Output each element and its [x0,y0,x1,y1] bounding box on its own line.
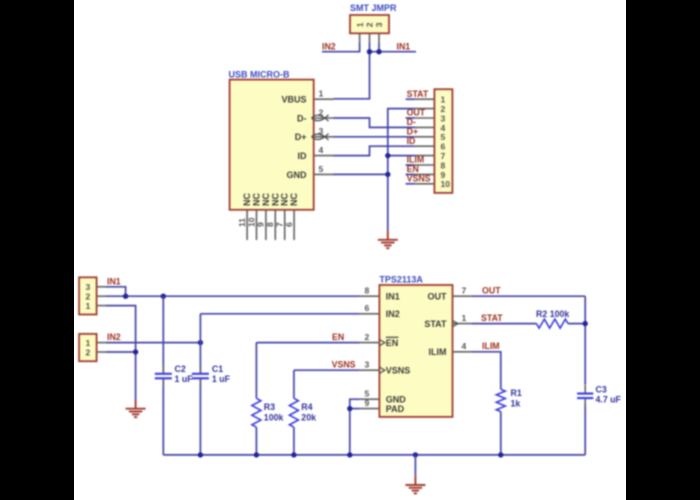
svg-text:TPS2113A: TPS2113A [379,274,423,284]
svg-text:2: 2 [365,22,375,27]
svg-text:R2 100k: R2 100k [536,309,569,319]
svg-text:7: 7 [462,286,467,296]
svg-text:10: 10 [441,179,451,189]
svg-text:1 uF: 1 uF [175,374,194,384]
svg-text:D+: D+ [295,132,307,142]
svg-text:IN2: IN2 [107,332,121,342]
svg-text:6: 6 [284,222,294,227]
svg-text:3: 3 [365,360,370,370]
svg-text:IN1: IN1 [107,276,121,286]
svg-text:EN: EN [386,338,399,348]
svg-text:1: 1 [319,89,324,99]
svg-text:VSNS: VSNS [386,366,411,376]
svg-text:1: 1 [355,22,365,27]
svg-text:NC: NC [289,193,299,206]
svg-text:C1: C1 [212,364,223,374]
svg-text:GND: GND [287,170,308,180]
svg-text:C2: C2 [175,364,186,374]
svg-text:IN2: IN2 [386,309,400,319]
svg-text:100k: 100k [264,412,284,422]
svg-text:20k: 20k [301,412,316,422]
svg-text:1k: 1k [511,399,521,409]
svg-text:IN1: IN1 [397,41,411,51]
svg-text:8: 8 [365,286,370,296]
svg-text:C3: C3 [596,384,607,394]
svg-text:STAT: STAT [424,319,447,329]
svg-text:ID: ID [298,151,308,161]
svg-text:R3: R3 [264,402,275,412]
svg-text:2: 2 [365,332,370,342]
svg-text:4: 4 [462,341,467,351]
svg-text:1: 1 [462,313,467,323]
svg-text:EN: EN [332,332,344,342]
svg-text:IN1: IN1 [386,292,400,302]
svg-text:2: 2 [86,347,91,357]
svg-text:ILIM: ILIM [429,347,447,357]
svg-text:STAT: STAT [407,89,429,99]
svg-text:4: 4 [319,145,324,155]
svg-text:9: 9 [365,398,370,408]
svg-text:STAT: STAT [481,313,503,323]
svg-text:1: 1 [86,301,91,311]
svg-text:3: 3 [374,22,384,27]
svg-text:VSNS: VSNS [332,360,356,370]
svg-text:1 uF: 1 uF [212,374,231,384]
svg-text:ILIM: ILIM [482,341,500,351]
svg-text:IN2: IN2 [322,41,336,51]
svg-text:PAD: PAD [386,404,405,414]
svg-text:VSNS: VSNS [407,173,431,183]
svg-text:5: 5 [319,164,324,174]
svg-text:R1: R1 [511,388,522,398]
svg-text:R4: R4 [301,402,312,412]
svg-text:6: 6 [365,303,370,313]
svg-text:D-: D- [297,113,307,123]
svg-text:4.7 uF: 4.7 uF [596,394,622,404]
svg-text:SMT JMPR: SMT JMPR [350,3,397,13]
svg-text:OUT: OUT [482,286,501,296]
svg-text:VBUS: VBUS [281,95,306,105]
svg-text:USB MICRO-B: USB MICRO-B [229,69,290,79]
svg-text:OUT: OUT [428,292,448,302]
